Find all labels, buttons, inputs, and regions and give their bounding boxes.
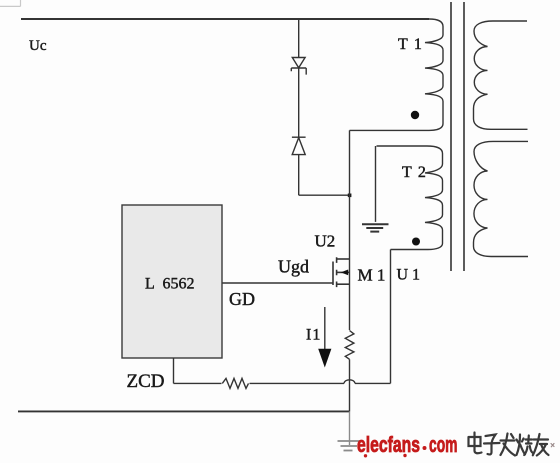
ground (bottom, behind watermark) xyxy=(338,441,361,451)
wire: diode branch bottom xyxy=(298,155,300,196)
wire: T2 top lead to ground xyxy=(375,146,377,222)
transformer T2 primary winding xyxy=(377,146,443,250)
svg-text:GD: GD xyxy=(229,289,255,309)
ground (T2) xyxy=(362,224,389,231)
T2 phase dot xyxy=(412,238,420,246)
svg-text:U 1: U 1 xyxy=(397,267,421,284)
T1 phase dot xyxy=(411,111,419,119)
current arrow I1 xyxy=(324,307,326,351)
svg-text:L: L xyxy=(145,276,155,293)
svg-text:Ugd: Ugd xyxy=(278,257,309,277)
wire: ZCD resistor to hop xyxy=(250,382,345,384)
junction at drain line xyxy=(348,194,352,198)
MOSFET body arrow xyxy=(341,270,348,276)
svg-text:M 1: M 1 xyxy=(358,266,386,285)
drain stub xyxy=(337,258,350,260)
wire: bottom bus xyxy=(18,410,350,412)
MOSFET M1 xyxy=(333,257,350,287)
wire: top bus (Uc rail) xyxy=(21,18,429,20)
transformer T1 primary winding xyxy=(350,19,444,130)
wire: drain line from T1 to MOSFET xyxy=(349,130,351,330)
gate bar xyxy=(332,262,334,286)
watermark: chinese characters 电子发烧友 xyxy=(469,433,555,456)
resistor R1 (ZCD series) xyxy=(222,378,248,388)
发 xyxy=(501,434,516,456)
wire hop over source line xyxy=(344,380,355,384)
transformer T1 secondary winding xyxy=(474,21,528,129)
wire: hop to U1 line xyxy=(355,382,391,384)
IC U1 controller box (L6562) xyxy=(122,205,222,358)
wire: ZCD horizontal to resistor xyxy=(174,382,222,384)
电 xyxy=(469,433,482,454)
body stub xyxy=(337,271,350,273)
svg-text:T 1: T 1 xyxy=(398,36,423,53)
svg-text:U2: U2 xyxy=(315,232,336,251)
channel segments xyxy=(336,257,338,287)
wire: diode branch top xyxy=(298,19,300,58)
wire: U1 sense line from T2 bottom xyxy=(390,250,392,384)
svg-text:elecfans: elecfans xyxy=(357,432,420,457)
svg-text:I1: I1 xyxy=(306,327,321,344)
svg-text:Uc: Uc xyxy=(29,38,47,54)
trailing tick xyxy=(551,444,554,447)
wire: gate lead from GD xyxy=(222,282,333,284)
svg-text:ZCD: ZCD xyxy=(127,371,165,392)
子 xyxy=(484,435,500,455)
wire: ZCD pin down xyxy=(173,358,175,383)
svg-text:com: com xyxy=(429,432,458,457)
wire: to bottom ground xyxy=(349,411,351,445)
svg-text:T 2: T 2 xyxy=(402,164,427,181)
watermark: elecfans.com logo xyxy=(357,432,458,457)
wire: sense resistor to bottom bus xyxy=(349,359,351,411)
wire: faint top-left corner artifact xyxy=(0,0,21,6)
transformer T2 secondary winding xyxy=(474,141,529,256)
wire: between diodes xyxy=(298,68,300,137)
resistor R2 (current sense) xyxy=(345,331,354,360)
zener diode D1 xyxy=(291,58,306,75)
烧 xyxy=(517,435,534,456)
source stub xyxy=(337,283,350,285)
wire: diode branch to drain line xyxy=(299,194,350,196)
transformer core xyxy=(451,2,464,271)
友 xyxy=(533,434,549,456)
diode D2 xyxy=(292,137,306,154)
svg-text:6562: 6562 xyxy=(163,276,195,293)
